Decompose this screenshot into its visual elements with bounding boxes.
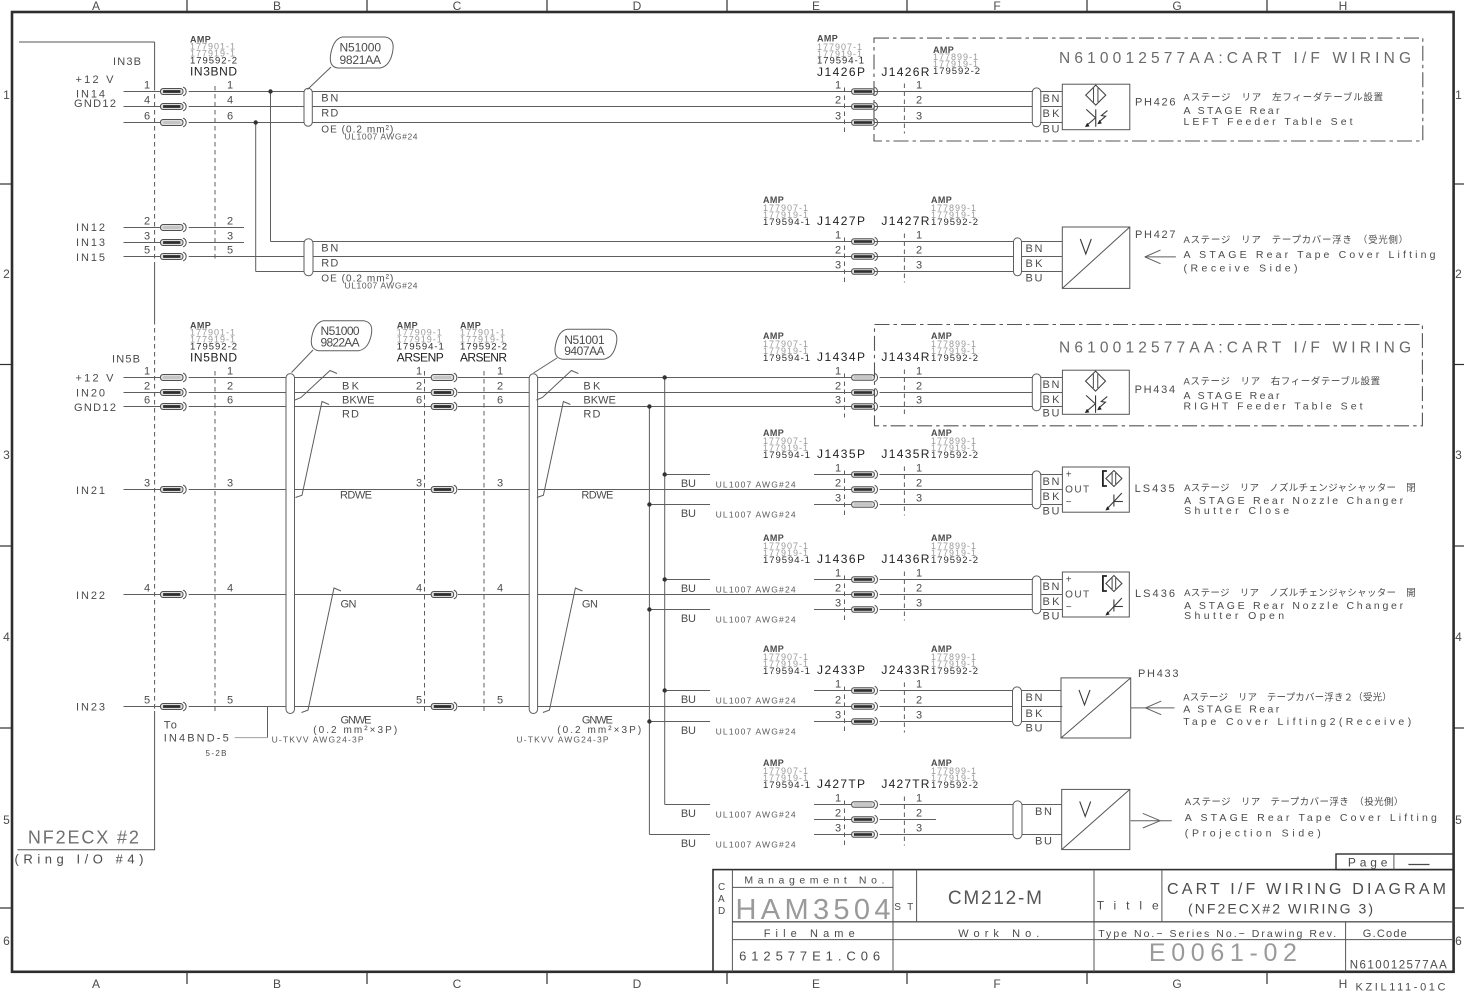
svg-text:A: A bbox=[718, 894, 725, 905]
svg-text:3: 3 bbox=[916, 260, 922, 272]
svg-text:E: E bbox=[812, 977, 820, 991]
svg-text:1: 1 bbox=[835, 568, 841, 580]
svg-text:1: 1 bbox=[835, 463, 841, 475]
svg-text:BU: BU bbox=[1043, 124, 1060, 136]
svg-text:BU: BU bbox=[681, 838, 696, 850]
svg-text:BK: BK bbox=[1043, 394, 1061, 406]
svg-text:J1426R: J1426R bbox=[881, 65, 929, 79]
svg-text:3: 3 bbox=[835, 710, 841, 722]
svg-text:5: 5 bbox=[144, 245, 150, 257]
svg-text:LS436: LS436 bbox=[1135, 588, 1175, 600]
svg-text:To: To bbox=[164, 719, 179, 731]
svg-text:J1434R: J1434R bbox=[881, 350, 929, 364]
svg-text:2: 2 bbox=[835, 583, 841, 595]
svg-text:Shutter Open: Shutter Open bbox=[1184, 610, 1284, 622]
svg-text:BU: BU bbox=[681, 694, 696, 706]
svg-text:ARSENP: ARSENP bbox=[397, 351, 444, 365]
svg-text:H: H bbox=[1339, 977, 1348, 991]
svg-text:J2433R: J2433R bbox=[881, 663, 929, 677]
svg-text:A STAGE Rear Tape Cover Liftin: A STAGE Rear Tape Cover Lifting bbox=[1184, 249, 1436, 261]
svg-text:G: G bbox=[1172, 0, 1181, 13]
svg-text:Aステージ リア テープカバー浮き （投光側）: Aステージ リア テープカバー浮き （投光側） bbox=[1185, 796, 1404, 808]
svg-text:UL1007 AWG#24: UL1007 AWG#24 bbox=[345, 281, 418, 291]
svg-text:2: 2 bbox=[916, 478, 922, 490]
svg-text:3: 3 bbox=[497, 478, 503, 490]
svg-text:BKWE: BKWE bbox=[342, 395, 375, 407]
svg-text:IN22: IN22 bbox=[76, 590, 105, 602]
svg-text:Aステージ リア テープカバー浮き （受光側）: Aステージ リア テープカバー浮き （受光側） bbox=[1184, 234, 1409, 246]
svg-text:BKWE: BKWE bbox=[583, 395, 616, 407]
svg-text:PH433: PH433 bbox=[1138, 668, 1179, 680]
svg-text:179592-2: 179592-2 bbox=[933, 66, 980, 77]
svg-text:A STAGE Rear Nozzle Changer: A STAGE Rear Nozzle Changer bbox=[1184, 600, 1404, 612]
svg-text:1: 1 bbox=[227, 366, 233, 378]
svg-text:BU: BU bbox=[1026, 273, 1043, 285]
svg-text:IN15: IN15 bbox=[76, 252, 105, 264]
svg-text:6: 6 bbox=[144, 395, 150, 407]
svg-text:5: 5 bbox=[227, 695, 233, 707]
svg-text:3: 3 bbox=[835, 395, 841, 407]
svg-text:OUT: OUT bbox=[1065, 485, 1089, 496]
svg-text:1: 1 bbox=[916, 230, 922, 242]
svg-text:PH426: PH426 bbox=[1135, 96, 1176, 108]
svg-text:4: 4 bbox=[497, 583, 503, 595]
svg-text:2: 2 bbox=[916, 583, 922, 595]
svg-text:J1427P: J1427P bbox=[817, 214, 865, 228]
svg-text:2: 2 bbox=[416, 381, 422, 393]
svg-text:PH427: PH427 bbox=[1135, 229, 1176, 241]
svg-text:3: 3 bbox=[144, 231, 150, 243]
svg-text:BK: BK bbox=[1043, 108, 1061, 120]
svg-text:6: 6 bbox=[227, 111, 233, 123]
svg-text:1: 1 bbox=[144, 80, 150, 92]
svg-text:J1436P: J1436P bbox=[817, 552, 865, 566]
svg-text:BU: BU bbox=[681, 725, 696, 737]
svg-text:1: 1 bbox=[3, 88, 10, 102]
svg-text:D: D bbox=[633, 977, 642, 991]
svg-text:BU: BU bbox=[681, 508, 696, 520]
svg-text:9822AA: 9822AA bbox=[321, 336, 360, 350]
svg-text:IN5BND: IN5BND bbox=[190, 351, 237, 365]
svg-text:179594-1: 179594-1 bbox=[763, 353, 810, 364]
svg-text:BN: BN bbox=[1035, 806, 1052, 818]
svg-text:GND12: GND12 bbox=[74, 98, 116, 110]
svg-text:GN: GN bbox=[341, 598, 357, 610]
svg-text:Aステージ リア テープカバー浮き２（受光）: Aステージ リア テープカバー浮き２（受光） bbox=[1183, 692, 1392, 704]
svg-text:RDWE: RDWE bbox=[581, 490, 613, 502]
svg-text:4: 4 bbox=[3, 630, 10, 644]
svg-text:IN21: IN21 bbox=[76, 485, 105, 497]
svg-text:3: 3 bbox=[916, 598, 922, 610]
svg-text:179594-1: 179594-1 bbox=[763, 217, 810, 228]
svg-text:6: 6 bbox=[144, 111, 150, 123]
svg-text:179592-2: 179592-2 bbox=[931, 353, 978, 364]
svg-text:PH434: PH434 bbox=[1135, 384, 1176, 396]
svg-text:179592-2: 179592-2 bbox=[931, 555, 978, 566]
svg-text:BN: BN bbox=[321, 243, 338, 255]
svg-text:2: 2 bbox=[835, 808, 841, 820]
svg-text:IN4BND-5: IN4BND-5 bbox=[164, 733, 229, 745]
svg-text:179592-2: 179592-2 bbox=[931, 217, 978, 228]
svg-text:+: + bbox=[1066, 575, 1072, 586]
svg-text:RD: RD bbox=[342, 409, 359, 421]
svg-text:2: 2 bbox=[144, 381, 150, 393]
svg-text:6: 6 bbox=[3, 934, 10, 948]
svg-text:3: 3 bbox=[835, 260, 841, 272]
svg-text:RD: RD bbox=[321, 258, 338, 270]
svg-text:BN: BN bbox=[1043, 93, 1060, 105]
svg-text:KZIL111-01C: KZIL111-01C bbox=[1356, 982, 1446, 992]
svg-text:3: 3 bbox=[916, 823, 922, 835]
svg-text:2: 2 bbox=[916, 808, 922, 820]
svg-text:1: 1 bbox=[416, 366, 422, 378]
svg-text:4: 4 bbox=[227, 95, 233, 107]
svg-text:179594-1: 179594-1 bbox=[763, 666, 810, 677]
svg-text:1: 1 bbox=[835, 80, 841, 92]
svg-text:F: F bbox=[993, 977, 1000, 991]
svg-text:IN12: IN12 bbox=[76, 222, 105, 234]
svg-text:BU: BU bbox=[1043, 611, 1060, 623]
svg-text:1: 1 bbox=[916, 679, 922, 691]
svg-text:BK: BK bbox=[1043, 491, 1061, 503]
svg-text:RD: RD bbox=[321, 108, 338, 120]
svg-text:1: 1 bbox=[835, 679, 841, 691]
svg-text:J427TP: J427TP bbox=[817, 777, 865, 791]
svg-text:4: 4 bbox=[144, 583, 150, 595]
svg-text:BN: BN bbox=[1026, 692, 1043, 704]
svg-text:3: 3 bbox=[144, 478, 150, 490]
svg-text:U-TKVV AWG24-3P: U-TKVV AWG24-3P bbox=[517, 735, 609, 745]
svg-text:BU: BU bbox=[681, 613, 696, 625]
svg-text:179592-2: 179592-2 bbox=[931, 666, 978, 677]
svg-text:BU: BU bbox=[1035, 836, 1052, 848]
svg-text:J1434P: J1434P bbox=[817, 350, 865, 364]
svg-text:ARSENR: ARSENR bbox=[460, 351, 507, 365]
svg-text:1: 1 bbox=[916, 568, 922, 580]
svg-text:IN13: IN13 bbox=[76, 237, 105, 249]
svg-text:BN: BN bbox=[1043, 476, 1060, 488]
svg-text:J2433P: J2433P bbox=[817, 663, 865, 677]
svg-text:+12 V: +12 V bbox=[76, 373, 115, 385]
svg-text:3: 3 bbox=[227, 478, 233, 490]
svg-text:J427TR: J427TR bbox=[881, 777, 929, 791]
svg-text:1: 1 bbox=[835, 230, 841, 242]
svg-text:+12 V: +12 V bbox=[76, 74, 115, 86]
svg-text:IN3B: IN3B bbox=[113, 56, 143, 68]
svg-text:6: 6 bbox=[497, 395, 503, 407]
svg-text:4: 4 bbox=[416, 583, 422, 595]
svg-text:1: 1 bbox=[835, 366, 841, 378]
svg-text:3: 3 bbox=[227, 231, 233, 243]
svg-text:3: 3 bbox=[3, 448, 10, 462]
svg-text:J1427R: J1427R bbox=[881, 214, 929, 228]
svg-text:E0061-02: E0061-02 bbox=[1149, 939, 1297, 967]
svg-text:2: 2 bbox=[835, 245, 841, 257]
svg-text:1: 1 bbox=[916, 366, 922, 378]
svg-text:IN23: IN23 bbox=[76, 702, 105, 714]
svg-text:J1436R: J1436R bbox=[881, 552, 929, 566]
svg-text:2: 2 bbox=[835, 695, 841, 707]
svg-text:3: 3 bbox=[916, 111, 922, 123]
svg-text:BN: BN bbox=[1043, 379, 1060, 391]
svg-text:IN5B: IN5B bbox=[112, 354, 142, 366]
svg-text:IN20: IN20 bbox=[76, 388, 105, 400]
svg-text:9821AA: 9821AA bbox=[340, 53, 382, 67]
svg-text:J1435R: J1435R bbox=[881, 447, 929, 461]
svg-text:2: 2 bbox=[227, 381, 233, 393]
svg-text:A: A bbox=[92, 977, 100, 991]
svg-text:3: 3 bbox=[835, 598, 841, 610]
svg-text:3: 3 bbox=[835, 111, 841, 123]
svg-text:3: 3 bbox=[916, 395, 922, 407]
svg-text:J1426P: J1426P bbox=[817, 65, 865, 79]
svg-text:9407AA: 9407AA bbox=[564, 344, 605, 358]
svg-text:BN: BN bbox=[321, 93, 338, 105]
svg-text:LS435: LS435 bbox=[1135, 483, 1175, 495]
svg-text:179594-1: 179594-1 bbox=[763, 555, 810, 566]
svg-text:2: 2 bbox=[916, 695, 922, 707]
svg-text:OUT: OUT bbox=[1065, 590, 1089, 601]
svg-text:F: F bbox=[993, 0, 1000, 13]
svg-text:GND12: GND12 bbox=[74, 402, 116, 414]
svg-text:+: + bbox=[1066, 470, 1072, 481]
svg-text:A STAGE Rear Nozzle Changer: A STAGE Rear Nozzle Changer bbox=[1184, 495, 1404, 507]
svg-text:N610012577AA: N610012577AA bbox=[1350, 960, 1447, 972]
svg-text:G: G bbox=[1172, 977, 1181, 991]
svg-text:5: 5 bbox=[144, 695, 150, 707]
svg-text:RDWE: RDWE bbox=[340, 490, 372, 502]
svg-text:D: D bbox=[718, 906, 725, 917]
svg-text:1: 1 bbox=[227, 80, 233, 92]
svg-text:5: 5 bbox=[497, 695, 503, 707]
svg-text:179592-2: 179592-2 bbox=[931, 780, 978, 791]
svg-text:2: 2 bbox=[144, 216, 150, 228]
svg-text:Aステージ リア 右フィーダテーブル設置: Aステージ リア 右フィーダテーブル設置 bbox=[1184, 375, 1381, 387]
svg-text:3: 3 bbox=[416, 478, 422, 490]
svg-text:E: E bbox=[812, 0, 820, 13]
svg-text:U-TKVV AWG24-3P: U-TKVV AWG24-3P bbox=[272, 735, 364, 745]
svg-text:2: 2 bbox=[835, 381, 841, 393]
svg-text:BN: BN bbox=[1026, 243, 1043, 255]
svg-text:J1435P: J1435P bbox=[817, 447, 865, 461]
svg-text:2: 2 bbox=[1455, 267, 1462, 281]
svg-text:BK: BK bbox=[1026, 258, 1044, 270]
svg-text:A STAGE Rear Tape Cover Liftin: A STAGE Rear Tape Cover Lifting bbox=[1185, 812, 1437, 824]
svg-text:H: H bbox=[1339, 0, 1348, 13]
svg-text:5: 5 bbox=[3, 813, 10, 827]
svg-text:1: 1 bbox=[1455, 88, 1462, 102]
svg-text:2: 2 bbox=[916, 245, 922, 257]
svg-text:IN3BND: IN3BND bbox=[190, 65, 237, 79]
svg-text:RD: RD bbox=[583, 409, 600, 421]
svg-text:B: B bbox=[273, 977, 281, 991]
svg-text:File Name: File Name bbox=[764, 928, 855, 940]
svg-text:BU: BU bbox=[681, 478, 696, 490]
svg-text:3: 3 bbox=[916, 710, 922, 722]
svg-text:Aステージ リア 左フィーダテーブル設置: Aステージ リア 左フィーダテーブル設置 bbox=[1184, 91, 1384, 103]
svg-text:5: 5 bbox=[416, 695, 422, 707]
svg-text:5-2B: 5-2B bbox=[206, 749, 227, 758]
svg-text:179594-1: 179594-1 bbox=[763, 450, 810, 461]
svg-text:4: 4 bbox=[144, 95, 150, 107]
svg-text:Aステージ リア ノズルチェンジャシャッター 閉: Aステージ リア ノズルチェンジャシャッター 閉 bbox=[1184, 482, 1416, 494]
svg-text:1: 1 bbox=[497, 366, 503, 378]
svg-text:B: B bbox=[273, 0, 281, 13]
svg-text:179592-2: 179592-2 bbox=[931, 450, 978, 461]
svg-text:BK: BK bbox=[342, 381, 360, 393]
svg-text:2: 2 bbox=[916, 381, 922, 393]
svg-text:C: C bbox=[718, 882, 725, 893]
svg-text:A: A bbox=[92, 0, 100, 13]
svg-text:2: 2 bbox=[835, 478, 841, 490]
svg-text:RIGHT Feeder Table Set: RIGHT Feeder Table Set bbox=[1184, 401, 1363, 413]
svg-text:NF2ECX #2: NF2ECX #2 bbox=[28, 828, 139, 848]
svg-text:2: 2 bbox=[3, 267, 10, 281]
svg-text:1: 1 bbox=[835, 793, 841, 805]
svg-text:2: 2 bbox=[835, 95, 841, 107]
svg-text:1: 1 bbox=[916, 80, 922, 92]
svg-text:2: 2 bbox=[916, 95, 922, 107]
svg-text:4: 4 bbox=[1455, 630, 1462, 644]
svg-text:1: 1 bbox=[916, 793, 922, 805]
svg-text:BK: BK bbox=[583, 381, 601, 393]
svg-text:2: 2 bbox=[497, 381, 503, 393]
svg-text:1: 1 bbox=[916, 463, 922, 475]
svg-text:3: 3 bbox=[835, 493, 841, 505]
svg-text:BK: BK bbox=[1026, 708, 1044, 720]
svg-text:6: 6 bbox=[416, 395, 422, 407]
svg-text:5: 5 bbox=[1455, 813, 1462, 827]
svg-text:3: 3 bbox=[835, 823, 841, 835]
svg-text:1: 1 bbox=[144, 366, 150, 378]
svg-text:BU: BU bbox=[1026, 723, 1043, 735]
svg-text:2: 2 bbox=[227, 216, 233, 228]
svg-text:3: 3 bbox=[1455, 448, 1462, 462]
svg-text:GN: GN bbox=[582, 598, 598, 610]
svg-text:Aステージ リア ノズルチェンジャシャッター 開: Aステージ リア ノズルチェンジャシャッター 開 bbox=[1184, 587, 1416, 599]
svg-text:UL1007 AWG#24: UL1007 AWG#24 bbox=[345, 132, 418, 142]
svg-text:6: 6 bbox=[227, 395, 233, 407]
svg-text:BU: BU bbox=[1043, 506, 1060, 518]
svg-text:3: 3 bbox=[916, 493, 922, 505]
svg-text:−: − bbox=[1066, 602, 1072, 613]
svg-text:BK: BK bbox=[1043, 596, 1061, 608]
svg-text:C: C bbox=[453, 0, 462, 13]
svg-text:BU: BU bbox=[1043, 408, 1060, 420]
svg-text:4: 4 bbox=[227, 583, 233, 595]
svg-text:179594-1: 179594-1 bbox=[763, 780, 810, 791]
svg-text:6: 6 bbox=[1455, 934, 1462, 948]
svg-text:−: − bbox=[1066, 497, 1072, 508]
svg-text:BN: BN bbox=[1043, 581, 1060, 593]
svg-text:BU: BU bbox=[681, 808, 696, 820]
svg-text:D: D bbox=[633, 0, 642, 13]
svg-text:BU: BU bbox=[681, 583, 696, 595]
svg-text:5: 5 bbox=[227, 245, 233, 257]
svg-text:C: C bbox=[453, 977, 462, 991]
